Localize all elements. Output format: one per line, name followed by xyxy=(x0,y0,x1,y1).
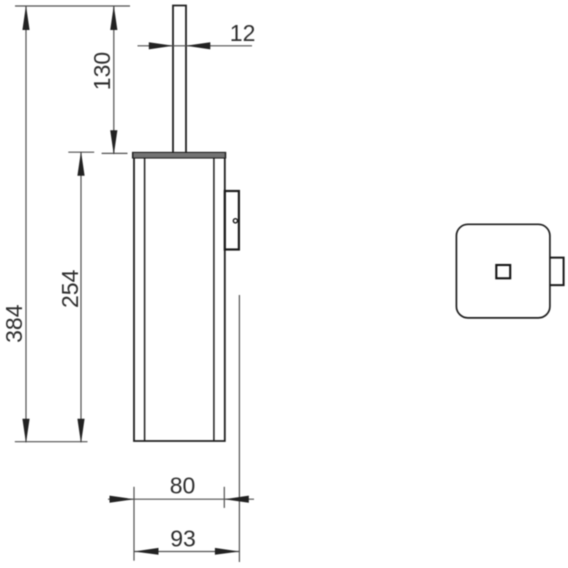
dimension line 254 xyxy=(80,152,82,442)
arrow 254 up xyxy=(77,151,84,176)
dimension line 93 xyxy=(134,551,239,553)
extension line bottom xyxy=(15,441,88,443)
body outer xyxy=(134,158,225,441)
extension tick 254 top xyxy=(68,151,94,153)
arrow 12 right xyxy=(186,42,211,49)
extension tick 130 bottom xyxy=(102,152,128,154)
extension line 80 right xyxy=(223,487,225,508)
svg-text:130: 130 xyxy=(89,52,115,90)
dimension line 130 xyxy=(113,6,115,153)
extension line 93 right long xyxy=(238,295,240,562)
dimension line 12 xyxy=(138,45,253,47)
svg-text:12: 12 xyxy=(230,20,256,46)
top view body xyxy=(456,224,550,318)
wall bracket xyxy=(225,191,239,250)
svg-text:93: 93 xyxy=(170,526,196,552)
svg-text:254: 254 xyxy=(57,269,83,308)
dimension line 80 xyxy=(108,498,254,500)
top view tab xyxy=(550,258,564,286)
arrow 130 down xyxy=(110,130,117,155)
extension line 80-93 left xyxy=(133,487,135,561)
arrow 80 left xyxy=(110,496,135,503)
dimension line 384 xyxy=(25,6,27,442)
arrow 12 left xyxy=(149,42,174,49)
body inner left line xyxy=(144,158,146,441)
lid xyxy=(133,153,226,158)
body inner right line xyxy=(213,158,215,441)
arrow 384 up xyxy=(22,6,29,31)
top view center square xyxy=(496,265,510,278)
arrow 93 right xyxy=(215,548,240,555)
svg-text:80: 80 xyxy=(170,473,196,499)
arrow 93 left xyxy=(134,548,159,555)
arrow 130 up xyxy=(110,6,117,31)
brush handle xyxy=(173,6,186,154)
extension line top xyxy=(15,5,130,7)
arrow 254 down xyxy=(77,419,84,444)
lid inner line lower xyxy=(133,155,226,157)
mounting hole xyxy=(233,219,237,223)
lid inner line upper xyxy=(133,153,226,155)
svg-text:384: 384 xyxy=(1,304,27,343)
arrow 80 right xyxy=(224,496,249,503)
arrow 384 down xyxy=(22,419,29,444)
